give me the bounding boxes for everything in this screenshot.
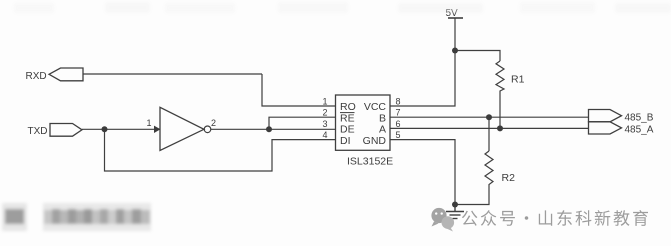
junction dot line A / R1 — [497, 125, 503, 131]
junction dot 5V / R1 branch — [452, 48, 458, 54]
svg-text:DE: DE — [340, 124, 355, 136]
wire R1 bottom to line A — [499, 91, 501, 129]
ground symbol — [446, 205, 464, 219]
wire line A pin6 to connector — [390, 127, 589, 129]
svg-text:RO: RO — [340, 101, 356, 113]
wire inverter output to DE pin3 — [211, 128, 336, 130]
svg-text:2: 2 — [211, 118, 216, 128]
wire TXD to inverter input — [82, 128, 160, 130]
svg-text:R1: R1 — [511, 74, 525, 86]
svg-text:485_B: 485_B — [625, 113, 654, 124]
svg-text:TXD: TXD — [28, 126, 48, 137]
watermark wechat logo — [431, 208, 454, 232]
wire VCC pin8 up to 5V rail — [390, 18, 455, 106]
svg-text:5: 5 — [396, 130, 401, 140]
wire RXD vertical to pin1 — [262, 74, 336, 106]
wire RXD horizontal — [83, 73, 262, 75]
watermark text — [462, 210, 648, 226]
svg-text:DI: DI — [340, 135, 351, 147]
svg-text:GND: GND — [363, 135, 387, 147]
connector 485_A — [589, 122, 654, 136]
svg-text:A: A — [379, 124, 386, 136]
junction dot line B / R2 — [486, 114, 492, 120]
inverter U2 — [147, 107, 217, 150]
svg-text:1: 1 — [323, 97, 328, 107]
op IC U1 ISL3152E body — [336, 95, 391, 150]
svg-text:6: 6 — [396, 119, 401, 129]
faint top smudges (censored) — [14, 2, 671, 13]
svg-text:ISL3152E: ISL3152E — [347, 156, 393, 168]
mosaic censored watermark bottom-left — [2, 203, 151, 231]
wire line B pin7 to connector — [390, 116, 589, 118]
wire R2 bottom to ground rail — [455, 188, 489, 205]
svg-text:R2: R2 — [502, 172, 516, 184]
svg-text:RXD: RXD — [26, 71, 47, 82]
wire GND pin5 down to ground — [390, 140, 455, 205]
wire branch up to RE pin2 — [269, 117, 336, 129]
svg-text:8: 8 — [396, 97, 401, 107]
svg-text:4: 4 — [323, 130, 328, 140]
svg-text:3: 3 — [323, 119, 328, 129]
connector 485_B — [589, 110, 654, 124]
junction dot ground rail — [452, 202, 458, 208]
resistor R2 zigzag — [485, 151, 493, 188]
connector RXD — [26, 68, 84, 82]
svg-text:1: 1 — [147, 118, 152, 128]
svg-text:485_A: 485_A — [625, 125, 654, 136]
svg-text:7: 7 — [396, 108, 401, 118]
svg-text:VCC: VCC — [364, 101, 387, 113]
junction dot inverter output / RE branch — [266, 126, 272, 132]
connector TXD — [28, 124, 83, 138]
RE overline — [340, 112, 355, 114]
svg-text:2: 2 — [323, 108, 328, 118]
junction dot TXD branch — [102, 126, 108, 132]
wire line B down to R2 top — [488, 117, 490, 151]
wire TXD bypass down-right-up to DI pin4 — [105, 129, 336, 171]
inverter input arrowhead — [154, 126, 161, 133]
wire 5V branch to R1 top — [455, 51, 500, 62]
IC right pin names — [363, 101, 387, 147]
resistor R1 zigzag — [496, 61, 504, 91]
IC left pin names — [340, 101, 356, 147]
power 5V symbol — [446, 8, 464, 19]
